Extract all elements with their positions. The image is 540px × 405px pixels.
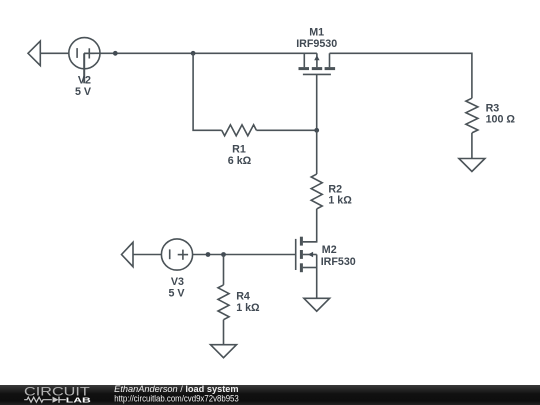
wire M1 gate down to R1/R2 node [316,74,318,130]
net flag (input arrow) at V2 [28,41,40,66]
svg-text:1 kΩ: 1 kΩ [328,195,352,207]
ground (below M2 source) [304,298,330,311]
wire R1 right to gate node [256,129,316,131]
junction dot top node to R1 [191,51,196,56]
net flag (input arrow) at V3 [122,242,134,266]
junction dot V3 terminal [206,252,211,257]
svg-text:5 V: 5 V [75,86,92,98]
ground (below R4) [211,345,237,358]
svg-text:V2: V2 [78,75,91,87]
junction dot gate node [314,128,319,133]
resistor R4 [218,285,229,320]
svg-text:LAB: LAB [66,395,92,404]
svg-text:R2: R2 [328,183,342,195]
svg-text:1 kΩ: 1 kΩ [236,302,260,314]
svg-text:R4: R4 [236,291,250,303]
transistor M1 (PMOS IRF9530) [299,53,336,74]
wire down from V3 node to R4 [223,255,225,285]
wire gate node down to R2 [316,130,318,174]
wire down from top node to R1 [193,53,222,130]
CircuitLab logo diode [53,397,66,403]
resistor R2 [311,174,322,209]
resistor R1 [222,125,257,136]
svg-text:5 V: 5 V [168,288,185,300]
svg-text:IRF530: IRF530 [321,256,356,268]
junction dot V3 node to R4 [221,252,226,257]
CircuitLab logo resistor zigzag [24,397,52,402]
wire flag1 to V2 [40,52,69,54]
wire M1 drain to R3 [330,53,472,98]
resistor R3 [466,98,478,133]
voltage source V2 [69,38,100,69]
wire R4 bottom to ground [223,320,225,345]
wire V3 right terminal to M2 gate [193,254,296,256]
svg-text:V3: V3 [171,276,184,288]
ground (below R3) [459,159,485,172]
svg-text:http://circuitlab.com/cvd9x72v: http://circuitlab.com/cvd9x72v8b953 [114,393,239,403]
wire flag2 to V3 [133,254,161,256]
dangling wire from V2 center going down [83,53,85,83]
voltage source V3 [161,239,192,270]
footer bar [0,385,540,405]
svg-text:M1: M1 [309,27,324,39]
svg-text:EthanAnderson / load system: EthanAnderson / load system [114,384,239,394]
svg-text:IRF9530: IRF9530 [296,38,337,50]
wire R2 bottom to M1 drain elbow [303,209,317,242]
junction dot V2 terminal [113,51,118,56]
wire V2 right terminal to M1 source/body [84,52,317,54]
wire R3 bottom to ground [471,133,473,159]
svg-text:M2: M2 [322,244,337,256]
svg-text:6 kΩ: 6 kΩ [228,155,252,167]
transistor M2 (NMOS IRF530) [296,237,317,299]
svg-text:100 Ω: 100 Ω [486,114,516,126]
svg-text:R1: R1 [232,144,246,156]
